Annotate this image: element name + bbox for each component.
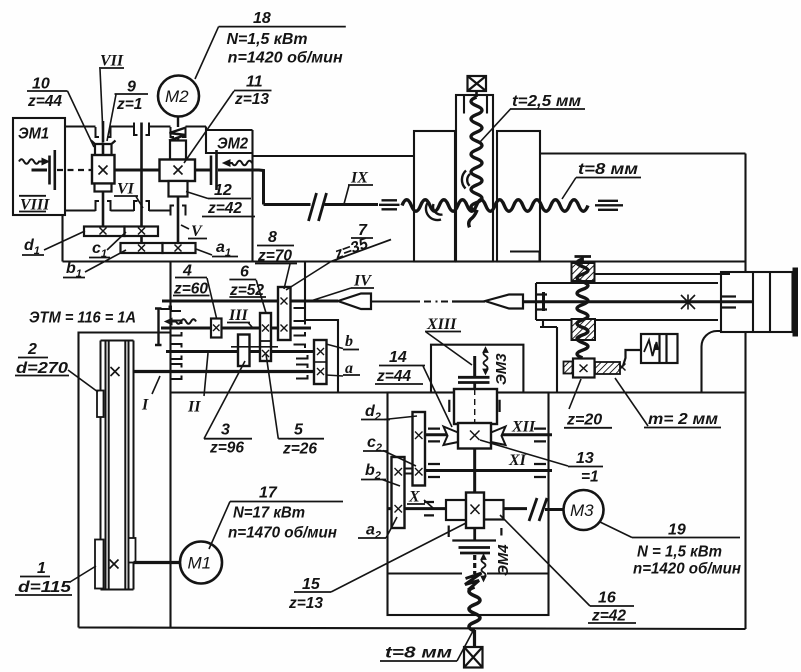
gear 6 cross	[262, 325, 269, 332]
svg-text:XI: XI	[508, 452, 527, 469]
worm XII cross	[470, 431, 480, 441]
c2 cross	[415, 468, 423, 476]
shaft I	[134, 370, 315, 373]
svg-text:II: II	[187, 399, 201, 416]
column center tower	[456, 95, 493, 262]
shaft VI vertical	[140, 123, 143, 244]
leader 9 to bevel	[107, 95, 116, 142]
bearing ticks beside gear 14	[449, 400, 499, 412]
feed cam row2 box a1	[163, 243, 196, 253]
bearing comb bottom (shaft VI)	[134, 201, 149, 211]
tailstock end thick bar	[793, 268, 799, 337]
svg-text:13: 13	[576, 450, 594, 467]
svg-text:N=1,5 кВт: N=1,5 кВт	[227, 31, 308, 48]
left big box (belt drive housing)	[79, 262, 171, 629]
svg-text:d1: d1	[24, 237, 40, 257]
label z52 underline	[229, 296, 266, 298]
gear 14 big block z=44	[454, 389, 497, 424]
leader 14 to worm wing	[423, 366, 452, 427]
label a underline	[343, 374, 360, 376]
leader IV to shaft	[309, 288, 351, 302]
label 9 underline	[115, 93, 149, 95]
bearing combs top of gearbox (shaft VII)	[96, 127, 111, 137]
sliding coupling line between gear3 and block	[231, 346, 278, 348]
gear 12 collar z=42	[169, 181, 188, 197]
svg-text:z=13: z=13	[288, 595, 323, 612]
svg-text:16: 16	[598, 590, 616, 607]
pulley 1 flange right	[129, 538, 136, 563]
leader VI to shaft	[136, 197, 143, 209]
gear 4 block z=60	[211, 319, 222, 338]
coupling bar between stacks	[405, 469, 413, 474]
worm gear XII box	[458, 423, 491, 449]
svg-text:15: 15	[302, 576, 321, 593]
shaft XIII between XII and XI	[473, 449, 476, 493]
leader t8bottom to wave	[457, 631, 473, 661]
gear stack d2-c2	[413, 412, 426, 486]
worm wheel wing right	[491, 427, 506, 446]
shaft XI line	[421, 469, 552, 472]
label 4 underline	[175, 277, 207, 279]
label 16 underline	[590, 605, 634, 607]
leader 6 to gear	[256, 280, 266, 313]
label a1 underline	[212, 256, 238, 258]
svg-text:10: 10	[32, 76, 50, 93]
svg-text:ЭТМ = 116 = 1А: ЭТМ = 116 = 1А	[29, 310, 136, 327]
clutch ЭМ2 plates	[211, 150, 217, 190]
gear 8 cross	[281, 325, 288, 332]
upper hatched nut block	[572, 263, 595, 281]
svg-text:М3: М3	[570, 501, 594, 520]
svg-text:19: 19	[668, 522, 686, 539]
bearing comb top (shaft VI)	[134, 123, 149, 136]
shaft VII vertical	[102, 121, 105, 227]
lock spring arrow	[653, 344, 660, 351]
clutch to M3	[529, 498, 547, 521]
tailstock end block	[721, 272, 793, 332]
apron housing box	[388, 393, 549, 616]
half-nut arcs at left column	[426, 202, 443, 220]
svg-text:III: III	[228, 307, 248, 324]
svg-text:z=35: z=35	[332, 235, 371, 263]
M2 spring coupling zigzag	[169, 128, 186, 141]
leader X to shaft	[424, 500, 433, 508]
svg-text:ЭМ4: ЭМ4	[495, 544, 512, 576]
svg-text:18: 18	[253, 10, 271, 27]
svg-text:V: V	[191, 223, 203, 240]
electromagnet arrow ЭМ4 vertical	[481, 554, 486, 582]
gear 6-5 sliding block	[260, 313, 271, 361]
leader II to shaft	[204, 353, 208, 396]
bearing combs left shaft I	[171, 364, 182, 379]
column right block	[497, 131, 540, 262]
svg-text:1: 1	[37, 560, 46, 577]
cross slide screw T-handle	[575, 257, 592, 264]
leader a1 to cam	[196, 249, 212, 255]
bed fillet corner	[702, 331, 722, 393]
telescopic shaft dash-dot	[371, 301, 448, 303]
label z42-16 underline	[588, 622, 636, 624]
carriage notch step	[510, 252, 540, 262]
svg-text:14: 14	[389, 349, 407, 366]
pulley 1 cross	[110, 560, 119, 569]
svg-text:ЭМ1: ЭМ1	[18, 126, 49, 143]
leader 10 to gear	[68, 91, 95, 147]
gear stack b2-a2	[392, 457, 405, 528]
leader 2 to pulley	[68, 370, 98, 392]
gear 10 lower collar	[95, 184, 112, 192]
shaft XIII lower dashes	[473, 555, 476, 574]
leader 16 to worm	[500, 515, 590, 606]
clutch box ЭМ3 outline	[431, 345, 523, 393]
apron inner bottom line	[388, 572, 549, 574]
shaft V vertical	[177, 137, 180, 243]
leader 12 to collar	[186, 192, 208, 199]
svg-text:z=70: z=70	[257, 248, 292, 265]
svg-text:8: 8	[268, 229, 277, 246]
svg-text:ЭМ3: ЭМ3	[493, 353, 510, 385]
leader b1 to cam	[85, 250, 126, 272]
leader XIII to shaft	[426, 332, 472, 365]
label b underline	[343, 349, 359, 351]
apron leadscrew wave down	[469, 587, 480, 631]
leader 1 to pulley	[70, 566, 96, 582]
cam crosses row1	[100, 228, 146, 235]
slide right brackets	[722, 297, 736, 308]
top-left gearbox right edge	[251, 130, 253, 262]
gear a-b stack	[314, 340, 327, 384]
shaft IV	[162, 300, 338, 303]
bearing comb bottom (shaft V)	[171, 206, 186, 216]
svg-text:2: 2	[27, 341, 37, 358]
top-left gearbox bottom segments	[65, 209, 171, 211]
crossed box top (screw anchor)	[468, 76, 487, 97]
leader VII to shaft	[100, 69, 103, 141]
svg-text:a: a	[345, 360, 353, 377]
svg-text:n=1420 об/мин: n=1420 об/мин	[228, 50, 343, 67]
svg-text:n=1420 об/мин: n=1420 об/мин	[633, 561, 741, 578]
bevel cone right	[452, 295, 523, 309]
leader 11 to gear	[184, 91, 234, 163]
feed cam row1 box d1	[84, 227, 125, 237]
svg-text:12: 12	[214, 182, 232, 199]
motor M3 circle	[564, 490, 604, 530]
shaft to M3	[545, 508, 564, 511]
label z70 underline	[255, 263, 297, 265]
label 6 underline	[229, 279, 256, 281]
label 13 underline	[568, 466, 603, 468]
column left block	[414, 131, 455, 262]
gear z=20 left coupling hatch	[564, 362, 573, 374]
top-left gearbox lower-left edge	[61, 215, 63, 262]
label 8 underline	[257, 245, 294, 247]
label 17 underline	[230, 501, 343, 503]
label 15 underline	[294, 591, 331, 593]
label t8top underline	[576, 177, 641, 179]
slide left step	[540, 320, 557, 393]
svg-text:t=2,5 мм: t=2,5 мм	[512, 93, 581, 110]
label 11 underline	[234, 90, 272, 92]
shaft XII line	[421, 433, 552, 436]
bevel cone left on shaft IV	[338, 294, 371, 310]
leader 19 to M3	[600, 522, 632, 538]
svg-text:z=13: z=13	[234, 91, 269, 108]
svg-text:z=60: z=60	[173, 281, 208, 298]
d2 cross	[415, 432, 423, 440]
leader d2 to gear	[384, 416, 417, 420]
leader 8 to gear	[284, 264, 290, 289]
crossed box bottom	[464, 647, 483, 668]
label 7 underline	[351, 237, 373, 239]
label d1 underline	[22, 254, 44, 256]
gear z=20 box	[573, 359, 595, 378]
worm block X left collar	[446, 500, 466, 520]
gear 10 block z=44	[92, 155, 115, 184]
bearing combs left of middle gearbox shaft III	[171, 321, 182, 336]
cam crosses row2	[138, 245, 182, 252]
gear 4 cross	[213, 325, 220, 332]
leader III to shaft	[248, 323, 253, 329]
svg-text:5: 5	[294, 422, 304, 439]
svg-text:VI: VI	[117, 181, 135, 198]
shaft III	[161, 327, 311, 330]
shaft pulley1 to M1	[134, 561, 181, 564]
shaft X left brackets	[424, 502, 434, 515]
bearing combs left shaft II	[171, 344, 182, 359]
headstock cover line right	[540, 152, 746, 154]
belt drive outer lines	[101, 341, 134, 590]
electromagnet arrow ЭМ1	[19, 158, 49, 164]
screw end bar	[542, 292, 545, 311]
worm X cross	[471, 505, 480, 515]
ЭМ2 corner box	[206, 127, 253, 154]
label 14 underline	[379, 365, 425, 367]
label z20 underline	[564, 427, 612, 429]
label V underline	[188, 238, 207, 240]
label z44-2 underline	[375, 383, 423, 385]
label VI underline	[114, 195, 138, 197]
svg-text:z=42: z=42	[207, 200, 242, 217]
leader b2 to gear	[382, 480, 400, 487]
svg-text:ЭМ2: ЭМ2	[217, 136, 248, 153]
vertical feed screw wave	[577, 259, 588, 358]
label VII underline	[99, 67, 124, 69]
shaft XI end brackets	[428, 464, 546, 477]
svg-text:9: 9	[127, 79, 136, 96]
shaft VIII axis	[32, 170, 264, 205]
label X underline	[407, 503, 425, 505]
bearing combs right shaft IV	[294, 305, 306, 309]
shaft XII end brackets	[428, 429, 546, 442]
svg-text:N=17 кВт: N=17 кВт	[233, 505, 305, 522]
label IX underline	[348, 184, 373, 186]
thread symbol left of leadscrew	[379, 200, 400, 209]
leader 15 to worm	[331, 523, 466, 592]
leader lines group	[44, 27, 648, 661]
svg-text:N = 1,5 кВт: N = 1,5 кВт	[637, 544, 722, 561]
nut star symbol	[681, 295, 695, 310]
carriage upper rail	[593, 273, 730, 275]
shaft X line	[388, 507, 528, 510]
leader IX to shaft	[344, 186, 349, 205]
leader 13 to worm	[480, 440, 568, 466]
clutch box ЭМ1 outline	[13, 118, 65, 215]
middle gearbox right edge	[305, 262, 338, 393]
svg-text:d=270: d=270	[16, 360, 68, 377]
leader t8top to wave	[562, 178, 576, 200]
cross slide body	[536, 283, 718, 320]
electromagnet arrow on shaft III	[165, 318, 196, 324]
leader d1 to cam	[44, 231, 85, 250]
label 2 underline	[18, 357, 48, 359]
thread symbol right of leadscrew	[595, 201, 623, 210]
rack end cross	[619, 364, 626, 371]
svg-text:XIII: XIII	[426, 316, 457, 333]
feed cam row2 box b1	[121, 243, 163, 253]
shaft XIII upper stub	[473, 356, 476, 377]
leader V to shaft	[181, 225, 189, 229]
electromagnet arrow ЭМ3 vertical	[483, 347, 488, 375]
bearing comb top (shaft V)	[171, 127, 186, 137]
electromagnet arrow ЭМ2	[223, 160, 252, 166]
leader 7 to gear	[286, 262, 331, 291]
svg-text:17: 17	[259, 485, 278, 502]
label c1 underline	[89, 257, 110, 259]
gear 10 cross	[99, 166, 108, 175]
svg-text:t=8 мм: t=8 мм	[578, 161, 638, 178]
label III underline	[227, 322, 250, 324]
label t25 underline	[510, 108, 585, 110]
shaft IX vertical drop and horizontal	[264, 203, 379, 206]
b2 cross	[395, 468, 403, 476]
svg-text:6: 6	[240, 264, 249, 281]
svg-text:М1: М1	[188, 554, 212, 573]
clutch on shaft IX	[309, 193, 327, 221]
leader a to gear	[326, 375, 343, 376]
label m2 underline	[644, 427, 721, 429]
motor M2 circle	[158, 76, 199, 117]
gear a cross	[317, 368, 324, 375]
clutch ЭМ3 plates	[458, 377, 490, 382]
svg-text:z=52: z=52	[229, 282, 264, 299]
pulley 1 flange left	[95, 540, 104, 589]
svg-text:t=8 мм: t=8 мм	[385, 645, 452, 662]
gear 3 block z=96	[238, 335, 250, 367]
label d115 underline	[15, 594, 72, 596]
label t8bottom underline	[380, 660, 457, 662]
gear 8/7 block	[278, 287, 291, 340]
right cover right edge	[744, 154, 746, 393]
label b1 underline	[63, 277, 85, 279]
svg-text:11: 11	[246, 74, 263, 91]
gear ab divider	[314, 361, 327, 363]
feed cam row1 box c1	[125, 227, 159, 237]
label 12 underline	[208, 198, 251, 200]
bearing combs right shaft II	[294, 345, 308, 359]
label z42 underline	[202, 216, 255, 218]
svg-text:IX: IX	[350, 170, 368, 187]
leader b to gear	[326, 344, 343, 349]
leadscrew t=2.5mm vertical wave	[469, 97, 482, 227]
lower right box right edge	[744, 393, 746, 630]
leader c1 to cam	[107, 232, 126, 250]
gear 7 cross	[281, 298, 288, 305]
clutch ЭМ1 plates	[50, 150, 55, 190]
svg-text:4: 4	[182, 263, 192, 280]
label d2 underline	[361, 419, 390, 421]
machine bottom outline	[79, 628, 746, 630]
svg-text:IV: IV	[353, 273, 372, 290]
half-nut arcs beside vertical screw	[462, 171, 470, 189]
svg-text:М2: М2	[165, 87, 189, 106]
shaft II	[166, 350, 315, 353]
leader 5 to gear	[266, 354, 278, 439]
tailstock inner plates	[753, 272, 770, 332]
svg-text:XII: XII	[511, 419, 536, 436]
gear 14 centerline dash	[474, 389, 476, 424]
motor M1 circle	[180, 542, 222, 584]
machine bed top line	[63, 260, 746, 262]
bearing combs right shaft III	[294, 321, 306, 336]
leader m2 to rack	[615, 378, 648, 426]
leadscrew t=8mm horizontal wave	[402, 200, 588, 212]
gear b cross	[317, 348, 324, 355]
label d270 underline	[15, 375, 69, 377]
lock device spring	[644, 340, 658, 356]
label XIII underline	[425, 331, 461, 333]
label z35 slanted underline	[331, 240, 391, 262]
svg-text:z=26: z=26	[282, 441, 317, 458]
headstock cover line left	[253, 155, 415, 157]
label b2 underline	[361, 479, 386, 481]
label IV underline	[351, 287, 374, 289]
gear 11 block z=13	[160, 160, 196, 182]
top-left gearbox top edge	[65, 125, 206, 127]
gear 6-5 divider	[260, 340, 271, 342]
worm housing ticks	[449, 526, 502, 541]
column tower guide slots	[464, 95, 487, 114]
label 10 underline	[27, 90, 68, 92]
shaft XIII through apron	[473, 383, 476, 541]
lower right box top edge	[171, 391, 746, 393]
leader c2 to gear	[383, 451, 416, 467]
clutch ЭМ4 plates	[459, 548, 491, 554]
worm wheel wing left	[444, 427, 459, 446]
lower hatched nut block	[572, 319, 596, 340]
motor M2 stem	[177, 116, 179, 127]
leadscrew lower stem	[473, 630, 476, 647]
leader a2 to gear	[386, 517, 397, 538]
apron leadscrew zigzag top	[465, 573, 482, 590]
lock device plates	[660, 334, 667, 363]
pulley 2 flange tab	[97, 391, 104, 418]
label 18 underline	[219, 26, 346, 28]
label a2 underline	[358, 537, 386, 539]
lock device box	[641, 334, 678, 363]
cross slide screw shaft	[523, 300, 753, 303]
svg-text:X: X	[408, 489, 420, 506]
svg-text:b: b	[345, 333, 353, 350]
label VIII bars	[19, 195, 46, 197]
leader 3 to gear	[204, 361, 245, 439]
leader z20 to gear	[569, 379, 581, 409]
svg-text:3: 3	[221, 422, 230, 439]
rack link to lock device	[623, 350, 641, 366]
shaft IV left bearing bracket	[161, 306, 182, 312]
pulley 2 cross	[111, 367, 120, 376]
bearing comb bottom (shaft VII)	[96, 201, 111, 211]
shaft III end flange	[155, 309, 162, 346]
